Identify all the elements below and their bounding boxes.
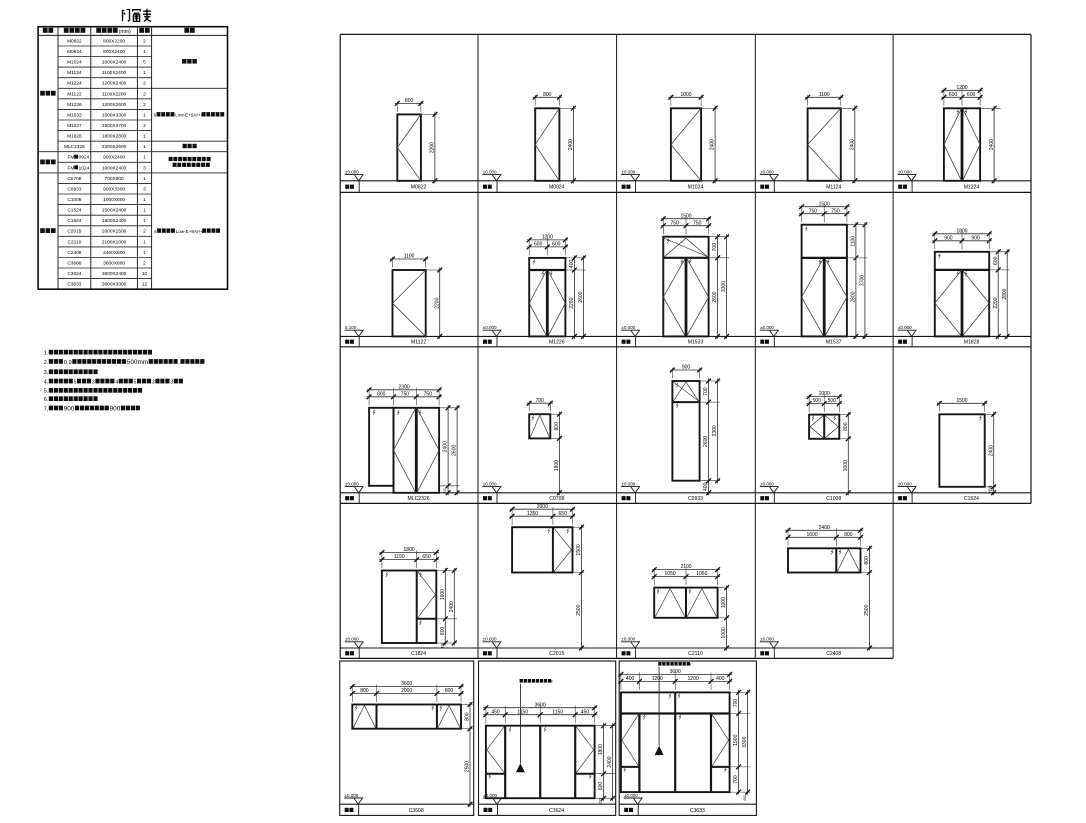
svg-text:C1524: C1524 bbox=[964, 496, 979, 502]
dimension M1122 width 1100 bbox=[390, 254, 428, 268]
svg-text:200: 200 bbox=[988, 485, 994, 494]
dimension M1224 width 1200 bbox=[941, 85, 982, 106]
svg-text:200: 200 bbox=[599, 798, 603, 804]
svg-text:M1124: M1124 bbox=[826, 185, 841, 191]
svg-text:1200: 1200 bbox=[652, 676, 663, 682]
dimension C3624 heights 1800/600/2400/200 bbox=[596, 723, 616, 804]
svg-text:2400: 2400 bbox=[443, 441, 449, 452]
svg-text:2.: 2. bbox=[44, 360, 49, 366]
svg-text:1: 1 bbox=[143, 250, 146, 256]
svg-text:3600: 3600 bbox=[401, 681, 412, 687]
svg-text:5: 5 bbox=[143, 60, 146, 66]
svg-text:C3633: C3633 bbox=[690, 808, 705, 814]
window C2110 elevation bbox=[654, 588, 717, 618]
level symbol C3608 bbox=[344, 793, 363, 804]
svg-text:C1824: C1824 bbox=[411, 651, 426, 657]
table inner row lines (code/size/qty columns) bbox=[58, 46, 152, 279]
door M1226 elevation bbox=[529, 258, 565, 337]
svg-text:100: 100 bbox=[440, 643, 444, 649]
svg-text:1800: 1800 bbox=[956, 228, 967, 234]
svg-text:450: 450 bbox=[491, 709, 500, 715]
dimension M1533 heights bbox=[710, 234, 730, 339]
svg-text:±0.000: ±0.000 bbox=[345, 637, 359, 642]
door M1537 elevation bbox=[802, 225, 847, 337]
svg-text:M1226: M1226 bbox=[67, 102, 82, 108]
door M1828 elevation bbox=[935, 252, 989, 337]
svg-text:2300X2600: 2300X2600 bbox=[102, 144, 127, 150]
svg-text:800: 800 bbox=[360, 688, 369, 694]
level symbol M1024 bbox=[621, 169, 640, 180]
svg-text:M0824: M0824 bbox=[67, 49, 82, 55]
svg-text:M1226: M1226 bbox=[549, 340, 565, 346]
window C0708 elevation bbox=[529, 414, 550, 438]
dimension M1537 width 1500 bbox=[799, 201, 849, 222]
level symbol M1226 bbox=[483, 325, 502, 336]
svg-text:±0.000: ±0.000 bbox=[621, 481, 635, 486]
svg-text:2400: 2400 bbox=[449, 601, 455, 612]
svg-text:C2408: C2408 bbox=[67, 250, 81, 256]
svg-text:800X2200: 800X2200 bbox=[103, 38, 125, 44]
exhaust unit marker C3624 (filled triangle + leader) bbox=[516, 679, 553, 772]
svg-text:M1024: M1024 bbox=[67, 60, 82, 66]
svg-text:(mm): (mm) bbox=[119, 29, 131, 35]
window C1824 elevation bbox=[382, 571, 436, 644]
svg-text:1200: 1200 bbox=[688, 676, 699, 682]
svg-text:700: 700 bbox=[703, 387, 709, 396]
table remark-column separators bbox=[152, 88, 228, 173]
svg-text:±0.000: ±0.000 bbox=[898, 169, 912, 174]
svg-text:4.: 4. bbox=[44, 379, 49, 385]
svg-text:2: 2 bbox=[143, 261, 146, 267]
svg-text:C0708: C0708 bbox=[67, 176, 81, 182]
level symbol M1224 bbox=[898, 169, 917, 180]
dimension MLC2326 width 2300 (800/750/750) bbox=[367, 384, 442, 405]
svg-text:1000: 1000 bbox=[721, 627, 727, 638]
svg-text:1200X2600: 1200X2600 bbox=[102, 102, 127, 108]
svg-text:750: 750 bbox=[693, 220, 702, 226]
svg-text:2200: 2200 bbox=[993, 297, 999, 308]
dimension M1024 height 2400 bbox=[702, 106, 718, 184]
svg-text:2400: 2400 bbox=[819, 525, 830, 531]
svg-text:800: 800 bbox=[844, 532, 853, 538]
dimension M1124 height 2400 bbox=[842, 106, 858, 184]
dimension M0822 height 2200 bbox=[422, 112, 438, 183]
svg-text:C0933: C0933 bbox=[67, 186, 81, 192]
dimension M1024 width 1000 bbox=[668, 92, 703, 106]
svg-text:500: 500 bbox=[813, 398, 822, 404]
level symbol M1124 bbox=[760, 169, 779, 180]
svg-text:0924: 0924 bbox=[79, 155, 90, 161]
svg-text:M1224: M1224 bbox=[964, 185, 980, 191]
elevation grid row5 boxes bbox=[340, 661, 757, 815]
dimension C2110 height/sill bbox=[719, 585, 730, 650]
level symbol M1828 bbox=[898, 325, 917, 336]
svg-text:2400: 2400 bbox=[849, 139, 855, 150]
table data rows text bbox=[64, 38, 148, 287]
svg-text:600: 600 bbox=[993, 256, 999, 265]
svg-text:M1533: M1533 bbox=[67, 112, 82, 118]
svg-text:1: 1 bbox=[143, 197, 146, 203]
svg-text:1000: 1000 bbox=[680, 92, 691, 98]
svg-text:2400: 2400 bbox=[710, 139, 716, 150]
cell title strips rows1-4 bbox=[340, 181, 1031, 659]
svg-text:1024: 1024 bbox=[79, 165, 90, 171]
svg-text:800: 800 bbox=[377, 391, 386, 397]
svg-text:1800: 1800 bbox=[404, 547, 415, 553]
svg-text:2800: 2800 bbox=[1002, 288, 1008, 299]
svg-text:3600X2400: 3600X2400 bbox=[102, 271, 127, 277]
svg-text:1800: 1800 bbox=[598, 744, 604, 755]
svg-text:±0.000: ±0.000 bbox=[760, 481, 774, 486]
svg-text:±0.000: ±0.000 bbox=[760, 325, 774, 330]
svg-text:1150: 1150 bbox=[517, 709, 528, 715]
dimension M1224 heights bbox=[981, 106, 1001, 184]
svg-text:1800X2400: 1800X2400 bbox=[102, 218, 127, 224]
svg-text:1500: 1500 bbox=[680, 213, 691, 219]
svg-text:3700: 3700 bbox=[860, 275, 866, 286]
svg-text:C0933: C0933 bbox=[688, 496, 703, 502]
svg-text:C3608: C3608 bbox=[67, 261, 81, 267]
table type group labels 普通门/防火门/普通窗 bbox=[40, 91, 55, 233]
svg-text:3: 3 bbox=[143, 186, 146, 192]
svg-text:1800X2800: 1800X2800 bbox=[102, 134, 127, 140]
svg-text:M1537: M1537 bbox=[67, 123, 82, 129]
dimension M1828 width 1800 bbox=[932, 228, 991, 249]
svg-text:1: 1 bbox=[143, 144, 146, 150]
svg-text:650: 650 bbox=[422, 554, 431, 560]
svg-text:±0.000: ±0.000 bbox=[483, 481, 497, 486]
svg-text:800: 800 bbox=[864, 556, 870, 565]
dimension M0824 height 2400 bbox=[560, 106, 576, 184]
svg-text:M1533: M1533 bbox=[688, 340, 704, 346]
level symbol M1122 5.100 bbox=[345, 325, 364, 336]
window C3633 elevation bbox=[621, 692, 730, 792]
svg-text:M1828: M1828 bbox=[67, 134, 82, 140]
svg-text:750: 750 bbox=[401, 391, 410, 397]
window C3624 elevation bbox=[486, 726, 595, 799]
table header texts 类型/设计编号/洞口尺寸(mm)/数量/备注 bbox=[43, 28, 195, 35]
svg-text:2500: 2500 bbox=[864, 604, 870, 615]
svg-text:1: 1 bbox=[143, 49, 146, 55]
svg-text:FM: FM bbox=[67, 165, 74, 171]
svg-text:900: 900 bbox=[971, 235, 980, 241]
svg-text:C1008: C1008 bbox=[826, 496, 841, 502]
window C2015 elevation bbox=[512, 527, 572, 572]
exhaust unit marker C3633 (filled triangle + leader) bbox=[655, 662, 692, 755]
svg-text:700: 700 bbox=[733, 775, 739, 784]
svg-text:6.: 6. bbox=[44, 397, 49, 403]
svg-text:800: 800 bbox=[440, 627, 446, 636]
svg-text:600: 600 bbox=[534, 242, 543, 248]
svg-text:3: 3 bbox=[170, 379, 173, 385]
svg-text:MLC2326: MLC2326 bbox=[64, 144, 85, 150]
dimension C2408 width 2400 bbox=[786, 525, 864, 546]
level symbol C0933 bbox=[621, 481, 640, 492]
door M1224 elevation bbox=[944, 108, 980, 181]
svg-text:2: 2 bbox=[143, 229, 146, 235]
svg-text:900X3300: 900X3300 bbox=[103, 186, 125, 192]
svg-text:1500: 1500 bbox=[819, 201, 830, 207]
svg-text:5.: 5. bbox=[44, 389, 49, 395]
level symbol C2015 bbox=[483, 637, 502, 648]
svg-text:2200: 2200 bbox=[434, 297, 440, 308]
svg-text:2500: 2500 bbox=[576, 604, 582, 615]
svg-text:750: 750 bbox=[670, 220, 679, 226]
svg-text:0.9: 0.9 bbox=[64, 360, 72, 366]
dimension M1533 width 1500 bbox=[661, 213, 711, 234]
svg-text:±0.000: ±0.000 bbox=[621, 637, 635, 642]
svg-text:1.: 1. bbox=[44, 351, 49, 357]
dimension C1008 width 1000 bbox=[807, 391, 842, 412]
svg-text:1: 1 bbox=[143, 155, 146, 161]
level symbol C0708 bbox=[483, 481, 502, 492]
svg-text:2600: 2600 bbox=[578, 291, 584, 302]
svg-text:2: 2 bbox=[143, 91, 146, 97]
svg-text:500: 500 bbox=[828, 398, 837, 404]
svg-text:2400X800: 2400X800 bbox=[103, 250, 125, 256]
svg-text:±0.000: ±0.000 bbox=[760, 169, 774, 174]
level symbol C1524 bbox=[898, 481, 917, 492]
svg-text:400: 400 bbox=[569, 260, 575, 269]
dimension M1226 heights bbox=[566, 255, 586, 339]
svg-text:3600X800: 3600X800 bbox=[103, 261, 125, 267]
svg-text:900: 900 bbox=[682, 365, 691, 371]
svg-text:C3624: C3624 bbox=[549, 808, 564, 814]
svg-text:1500X2400: 1500X2400 bbox=[102, 208, 127, 214]
svg-text:C2015: C2015 bbox=[67, 229, 81, 235]
svg-text:1350: 1350 bbox=[527, 511, 538, 517]
svg-text:±0.000: ±0.000 bbox=[898, 481, 912, 486]
svg-text:1000: 1000 bbox=[819, 391, 830, 397]
svg-text:600: 600 bbox=[967, 92, 976, 98]
door M1024 elevation bbox=[671, 108, 701, 181]
svg-text:3600: 3600 bbox=[670, 669, 681, 675]
svg-text:2: 2 bbox=[143, 123, 146, 129]
svg-text:M0824: M0824 bbox=[549, 185, 565, 191]
svg-text:±0.000: ±0.000 bbox=[621, 169, 635, 174]
svg-text:2400: 2400 bbox=[988, 445, 994, 456]
svg-text:3600: 3600 bbox=[535, 702, 546, 708]
svg-text:M0822: M0822 bbox=[411, 185, 427, 191]
svg-text:800: 800 bbox=[554, 422, 560, 431]
svg-text:1500: 1500 bbox=[956, 398, 967, 404]
svg-text:3300: 3300 bbox=[721, 281, 727, 292]
level symbol MLC2326 bbox=[345, 481, 364, 492]
svg-text:MLC2326: MLC2326 bbox=[408, 496, 430, 502]
svg-text:900X2400: 900X2400 bbox=[103, 155, 125, 161]
svg-text:±0.000: ±0.000 bbox=[483, 169, 497, 174]
level symbol C2110 bbox=[621, 637, 640, 648]
svg-text:800: 800 bbox=[405, 98, 414, 104]
svg-text:FM: FM bbox=[67, 155, 74, 161]
dimension C3608 height/sill bbox=[462, 702, 473, 807]
door M0824 elevation bbox=[535, 108, 559, 181]
svg-text:2600: 2600 bbox=[851, 291, 857, 302]
svg-text:2600: 2600 bbox=[452, 445, 458, 456]
svg-text:1100X2400: 1100X2400 bbox=[102, 70, 127, 76]
svg-text:5: 5 bbox=[74, 379, 77, 385]
svg-text:1000X800: 1000X800 bbox=[103, 197, 125, 203]
svg-text:1200: 1200 bbox=[956, 85, 967, 91]
svg-text:±0.000: ±0.000 bbox=[483, 637, 497, 642]
table remark texts bbox=[154, 59, 225, 234]
svg-text:2: 2 bbox=[143, 81, 146, 87]
svg-text:3300: 3300 bbox=[742, 736, 748, 747]
svg-text:800: 800 bbox=[843, 422, 849, 431]
svg-text:1100: 1100 bbox=[851, 236, 857, 247]
dimension C0933 heights 700/2600/3300/400 bbox=[701, 379, 721, 496]
dimension C1824 heights 1600/800/2400/100 bbox=[437, 568, 457, 648]
svg-text:1500: 1500 bbox=[576, 544, 582, 555]
svg-text:200: 200 bbox=[443, 488, 447, 494]
svg-text:2100: 2100 bbox=[680, 564, 691, 570]
svg-text:C2408: C2408 bbox=[826, 651, 841, 657]
svg-text:3: 3 bbox=[152, 379, 155, 385]
dimension C2015 height/sill bbox=[574, 525, 585, 651]
dimension M1828 heights bbox=[990, 249, 1010, 339]
svg-text:5: 5 bbox=[134, 379, 137, 385]
level symbol M1537 bbox=[760, 325, 779, 336]
svg-text:1900: 1900 bbox=[733, 734, 739, 745]
svg-text:C0708: C0708 bbox=[549, 496, 564, 502]
svg-text:400: 400 bbox=[703, 482, 709, 491]
svg-text:1600: 1600 bbox=[843, 460, 849, 471]
door+window MLC2326 elevation bbox=[369, 408, 439, 493]
dimension C2110 width 2100 bbox=[652, 564, 720, 585]
svg-text:800: 800 bbox=[543, 92, 552, 98]
svg-text:1: 1 bbox=[143, 134, 146, 140]
dimension C0708 width 700 bbox=[527, 398, 553, 412]
svg-text:2: 2 bbox=[143, 102, 146, 108]
svg-text:800: 800 bbox=[465, 712, 471, 721]
dimension M0824 width 800 bbox=[533, 92, 562, 106]
window C0933 elevation bbox=[672, 381, 699, 481]
svg-text:2400: 2400 bbox=[568, 139, 574, 150]
svg-text:2200: 2200 bbox=[569, 297, 575, 308]
svg-text:±0.000: ±0.000 bbox=[621, 325, 635, 330]
svg-text:±0.000: ±0.000 bbox=[760, 637, 774, 642]
svg-text:Low-E+9Ar+6: Low-E+9Ar+6 bbox=[175, 113, 204, 118]
dimension C1824 width 1800 (1150/650) bbox=[379, 547, 438, 568]
dimension C2408 height/sill bbox=[862, 546, 873, 651]
svg-text:1800: 1800 bbox=[554, 460, 560, 471]
svg-text:650: 650 bbox=[559, 511, 568, 517]
svg-text:1150: 1150 bbox=[552, 709, 563, 715]
dimension C1524 width 1500 bbox=[937, 398, 987, 412]
svg-text:1100: 1100 bbox=[404, 254, 415, 260]
dimension C3608 width 3600 bbox=[350, 681, 464, 702]
level symbol M0822 bbox=[345, 169, 364, 180]
svg-text:10: 10 bbox=[142, 271, 148, 277]
svg-text:C2015: C2015 bbox=[549, 651, 564, 657]
svg-text:1050: 1050 bbox=[665, 571, 676, 577]
svg-text:2600: 2600 bbox=[703, 436, 709, 447]
level symbol M1533 bbox=[621, 325, 640, 336]
dimension C3633 width 3600 (400/1200/1200/400) bbox=[618, 669, 732, 690]
svg-text:750: 750 bbox=[424, 391, 433, 397]
elevation grid row frames bbox=[340, 34, 1031, 658]
svg-text:C1008: C1008 bbox=[67, 197, 81, 203]
svg-text:900: 900 bbox=[110, 405, 121, 412]
svg-text:2400: 2400 bbox=[989, 139, 995, 150]
svg-text:800: 800 bbox=[445, 688, 454, 694]
window C2408 elevation bbox=[788, 548, 861, 572]
title 门窗表 (schedule title) bbox=[123, 9, 152, 22]
svg-text:M0822: M0822 bbox=[67, 38, 82, 44]
svg-text:Low-E+9Ar+6: Low-E+9Ar+6 bbox=[176, 229, 205, 234]
dimension M1226 width 1200 bbox=[527, 235, 568, 256]
svg-text:±0.000: ±0.000 bbox=[345, 793, 359, 798]
notes text block (7 numbered notes) bbox=[44, 350, 205, 413]
svg-text:5.100: 5.100 bbox=[345, 325, 357, 330]
svg-text:750: 750 bbox=[809, 208, 818, 214]
svg-text:2300: 2300 bbox=[399, 384, 410, 390]
svg-text:±0.000: ±0.000 bbox=[624, 793, 638, 798]
svg-text:600: 600 bbox=[949, 92, 958, 98]
svg-text:600: 600 bbox=[598, 782, 604, 791]
level symbol C3624 bbox=[483, 793, 502, 804]
svg-text:450: 450 bbox=[581, 709, 590, 715]
door M1533 elevation bbox=[663, 237, 708, 337]
svg-text:800X2400: 800X2400 bbox=[103, 49, 125, 55]
svg-text:1000X2400: 1000X2400 bbox=[102, 165, 127, 171]
svg-text:C3624: C3624 bbox=[67, 271, 81, 277]
svg-text:1600: 1600 bbox=[440, 589, 446, 600]
svg-text:1: 1 bbox=[143, 208, 146, 214]
svg-text:2: 2 bbox=[143, 38, 146, 44]
svg-text:700: 700 bbox=[536, 398, 545, 404]
dimension C0933 width 900 bbox=[670, 365, 702, 379]
svg-text:±0.000: ±0.000 bbox=[483, 793, 497, 798]
dimension C3633 heights 700/1900/700/3300/400 bbox=[731, 690, 751, 804]
svg-text:M1122: M1122 bbox=[67, 91, 82, 97]
svg-text:3: 3 bbox=[92, 379, 95, 385]
svg-text:700: 700 bbox=[712, 243, 718, 252]
svg-text:7.: 7. bbox=[44, 406, 49, 412]
svg-text:,: , bbox=[178, 360, 179, 366]
level symbol C2408 bbox=[760, 637, 779, 648]
svg-text:1200: 1200 bbox=[542, 235, 553, 241]
svg-text:C2110: C2110 bbox=[68, 239, 82, 245]
svg-text:400: 400 bbox=[716, 676, 725, 682]
svg-text:1: 1 bbox=[143, 70, 146, 76]
svg-text:M1124: M1124 bbox=[67, 70, 82, 76]
svg-text:2400: 2400 bbox=[607, 756, 613, 767]
svg-text:1: 1 bbox=[143, 112, 146, 118]
level symbol C1824 bbox=[345, 637, 364, 648]
svg-text:700X800: 700X800 bbox=[104, 176, 124, 182]
svg-text:400: 400 bbox=[626, 676, 635, 682]
svg-text:3600X3300: 3600X3300 bbox=[102, 282, 127, 288]
svg-text:±0.000: ±0.000 bbox=[898, 325, 912, 330]
svg-text:2000: 2000 bbox=[401, 688, 412, 694]
dimension M0822 width 800 bbox=[395, 98, 424, 112]
window C1524 elevation bbox=[939, 414, 984, 487]
svg-text:1: 1 bbox=[143, 239, 146, 245]
window C1008 elevation bbox=[809, 415, 839, 439]
svg-text:1: 1 bbox=[143, 176, 146, 182]
window C3608 elevation bbox=[352, 705, 461, 729]
svg-text:900: 900 bbox=[64, 405, 75, 412]
door M0822 elevation bbox=[397, 114, 421, 180]
svg-text:750: 750 bbox=[831, 208, 840, 214]
svg-text:600: 600 bbox=[552, 242, 561, 248]
level symbol M0824 bbox=[483, 169, 502, 180]
schedule table frame bbox=[38, 27, 227, 290]
svg-text:1100: 1100 bbox=[819, 92, 830, 98]
svg-text:1B: 1B bbox=[548, 680, 553, 684]
svg-text:M1122: M1122 bbox=[411, 340, 426, 346]
